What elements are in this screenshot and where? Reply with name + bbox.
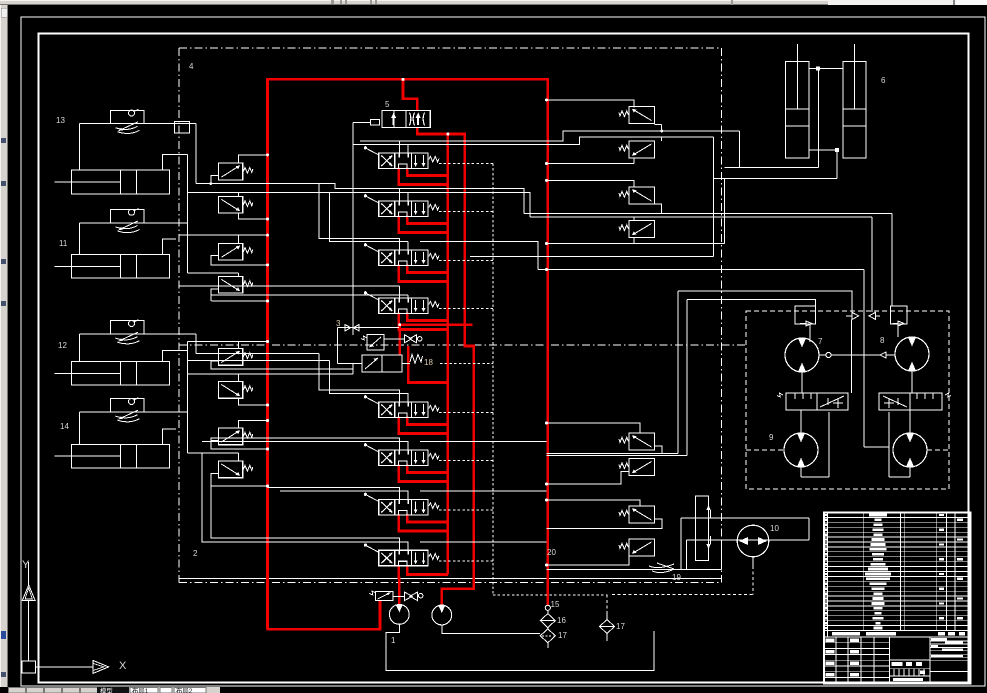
comp6 wire upper	[740, 131, 787, 167]
10 drain	[752, 557, 754, 566]
svg-text:11: 11	[59, 239, 68, 248]
motor lower right	[893, 433, 927, 467]
row7 right	[420, 490, 547, 492]
pilot valve right column 8	[619, 539, 655, 556]
pilot dashed	[439, 260, 493, 262]
bus A to row2/right	[196, 184, 524, 214]
svg-text:7: 7	[818, 337, 823, 346]
rod 12	[55, 372, 72, 374]
row5 stub A	[319, 354, 399, 402]
pv15 pilot line	[547, 500, 641, 506]
svg-text:9: 9	[769, 433, 774, 442]
line cyl13 head	[80, 123, 196, 125]
pv12 out	[633, 238, 635, 244]
pv8 pilot line	[238, 453, 240, 461]
red feed to valve 5	[403, 79, 417, 111]
link bus across red	[470, 255, 713, 257]
svg-text:18: 18	[424, 358, 433, 367]
directional valve row 8	[364, 544, 439, 566]
red tap B	[406, 514, 409, 522]
pilot valve left column 2	[218, 196, 252, 213]
line cyl11 head	[80, 222, 188, 224]
pv4 out	[211, 289, 219, 301]
right bus 3	[538, 269, 864, 271]
bus F	[196, 353, 319, 355]
directional valve row 7	[364, 493, 439, 515]
wire 3 down to valve 18	[337, 328, 339, 364]
pv10 out	[629, 157, 634, 159]
bus row1 to comp6 side	[408, 137, 713, 145]
pilot valve right column 6	[619, 459, 655, 476]
svg-text:2: 2	[193, 549, 198, 558]
dashed to motor 9	[746, 449, 784, 451]
pv13 pilot line	[547, 423, 641, 433]
svg-text:16: 16	[557, 616, 566, 625]
solid line above dashed bottom	[179, 578, 722, 580]
red long riser lower	[464, 346, 474, 590]
wire 3 to red header	[338, 327, 400, 329]
pilot valve left column 5	[218, 349, 252, 366]
directional valve row 4	[364, 291, 439, 313]
pilot valve left column 3	[218, 243, 252, 260]
right bus 4	[678, 291, 852, 312]
cyl13 port2	[162, 155, 187, 171]
red tap B	[406, 417, 409, 425]
pv2 pilot line	[238, 192, 240, 196]
bus E	[212, 300, 268, 302]
pv10 top link	[661, 137, 663, 141]
branch to row3b	[330, 192, 409, 241]
row2 stub A	[398, 188, 400, 201]
left toolbar strip	[0, 5, 8, 687]
pv1 out	[211, 176, 219, 184]
svg-text:Y: Y	[22, 559, 30, 571]
pv5 pilot line	[239, 342, 268, 349]
svg-text:4: 4	[189, 62, 194, 71]
red right riser	[546, 78, 549, 606]
node circles and crosslink	[826, 352, 831, 357]
svg-text:20: 20	[547, 548, 556, 557]
red tap B	[406, 313, 409, 321]
valve block near 10	[696, 496, 709, 561]
red tap B	[406, 265, 409, 273]
dashed motor enclosure	[746, 311, 949, 489]
parts list table	[824, 513, 971, 684]
cyl12 port2	[162, 351, 187, 362]
svg-text:14: 14	[60, 422, 69, 431]
row8 right	[420, 541, 547, 543]
right bus 3 drop	[863, 270, 865, 448]
bus row1 to comp6 upper	[399, 131, 739, 141]
svg-text:3: 3	[336, 319, 341, 328]
red tap A	[398, 168, 401, 185]
cylinder pair 6	[786, 61, 810, 158]
pv16 out	[547, 556, 630, 565]
return line	[547, 569, 722, 571]
pilot valve left column 7	[218, 428, 252, 445]
bus G	[187, 373, 353, 375]
pv3 pilot line	[238, 235, 240, 243]
pilot valve right column 1	[619, 107, 655, 124]
row1 stub A	[360, 141, 399, 153]
row6 stub A	[211, 438, 399, 450]
svg-text:17: 17	[558, 631, 567, 640]
pilot dashed	[439, 308, 493, 310]
svg-text:1: 1	[391, 636, 396, 645]
red to relief valve	[379, 600, 382, 631]
dashed from motor	[927, 449, 949, 451]
svg-text:17: 17	[616, 622, 625, 631]
red mid header	[398, 323, 472, 326]
red tap B	[406, 168, 409, 176]
double bus upper	[547, 453, 679, 455]
row8 stub A	[211, 486, 399, 550]
bus B to row2/right	[187, 192, 530, 216]
pv8 out	[211, 473, 268, 486]
check valve at pump outlet	[405, 592, 413, 601]
pump 2	[432, 605, 452, 625]
cylinder 14	[55, 444, 170, 468]
pilot dashed	[439, 211, 493, 213]
svg-text:8: 8	[880, 336, 885, 345]
row4 stub B	[211, 294, 408, 296]
svg-text:19: 19	[672, 573, 681, 582]
pump2 suction	[442, 625, 540, 634]
comp6 wire lower	[724, 178, 786, 243]
pv2 out	[239, 213, 268, 219]
row6 right	[420, 441, 547, 443]
red bottom run	[266, 628, 380, 631]
rod 11	[55, 265, 72, 267]
row7 stub B	[280, 491, 408, 500]
cylinder 13	[55, 170, 170, 194]
svg-text:布局1: 布局1	[132, 686, 149, 693]
solenoid valve right (motor circuit)	[879, 393, 942, 410]
pv6 out	[239, 398, 268, 405]
top toolbar strip	[0, 0, 987, 5]
pv11 out	[655, 204, 662, 213]
red tap B	[406, 216, 409, 224]
solenoid valve left (motor circuit)	[786, 393, 848, 410]
line cyl14 head	[80, 411, 188, 413]
pv9 out	[655, 123, 662, 125]
svg-text:布局2: 布局2	[176, 686, 193, 693]
right bus 1	[524, 212, 892, 214]
pv13 out	[655, 446, 662, 454]
pilot valve left column 6	[218, 382, 252, 399]
red tap A	[398, 216, 401, 233]
directional valve row 1	[364, 146, 439, 168]
row2 stub B	[407, 192, 409, 201]
layout tab bar	[8, 687, 220, 693]
wire to 10 lower	[687, 539, 810, 541]
row7 stub A	[268, 488, 400, 500]
small orifice box on dashed line	[175, 122, 190, 134]
tank 19	[649, 564, 674, 568]
pilot valve right column 7	[619, 506, 655, 523]
pv12 top link	[633, 217, 635, 221]
pilot valve right column 3	[619, 187, 655, 204]
svg-text:模型: 模型	[100, 686, 113, 693]
row4 stub A	[180, 285, 400, 287]
branch to row3	[319, 184, 399, 250]
dashed mid line of box 4	[179, 344, 746, 346]
directional valve row 3	[364, 243, 439, 265]
red tap A	[398, 465, 401, 482]
node 15	[545, 605, 550, 610]
pv11 pilot line	[547, 180, 635, 187]
pilot valve right column 5	[619, 433, 655, 450]
bus C	[180, 234, 268, 236]
double bus lower	[547, 455, 688, 457]
wire to 10 upper	[681, 517, 809, 519]
pilot valve right column 4	[619, 221, 655, 238]
directional valve row 6	[364, 443, 439, 465]
pv14 out	[547, 472, 630, 485]
dashed drain line	[612, 594, 753, 596]
motor 9	[784, 433, 818, 467]
row1 stub B	[353, 145, 408, 154]
dashed enclosure box 4	[179, 47, 722, 49]
svg-text:6: 6	[881, 76, 886, 85]
rod 13	[55, 181, 72, 183]
red tap A	[398, 417, 401, 434]
pilot dashed	[439, 412, 493, 414]
red long riser upper	[463, 133, 466, 346]
cylinder 11	[55, 255, 170, 279]
pv1 pilot line	[239, 155, 268, 163]
pilot valve left column 1	[218, 163, 252, 180]
relief valve 3 body	[367, 335, 384, 351]
svg-text:5: 5	[385, 100, 390, 109]
pilot dashed	[439, 163, 493, 165]
red pump 1 riser	[398, 577, 401, 606]
pv4 pilot line	[238, 273, 240, 276]
pump 1	[389, 605, 409, 625]
row8 stub B	[202, 453, 408, 550]
pv5 out	[211, 361, 353, 369]
pilot dashed	[439, 460, 493, 462]
motor internal wires	[809, 324, 811, 342]
pilot dashed	[439, 560, 493, 562]
rod 14	[55, 455, 72, 457]
pilot valve left column 4	[218, 276, 252, 293]
pv7 pilot line	[239, 421, 268, 429]
bus D	[187, 272, 238, 274]
motor 7	[785, 338, 819, 372]
shuttle checks	[852, 312, 858, 319]
red to pump 2	[442, 589, 474, 606]
bus G2	[187, 360, 329, 362]
red pump1 riser joins row8 port	[398, 565, 401, 579]
pv9 pilot line	[547, 100, 635, 108]
pv7 out	[211, 440, 268, 449]
pilot valve left column 8	[218, 461, 252, 478]
pv3 out	[211, 256, 268, 265]
UCS icon	[22, 661, 35, 673]
right bus 2	[530, 216, 872, 218]
pilot dashed	[439, 509, 493, 511]
right bus 1 drop	[891, 213, 893, 306]
red top header	[268, 78, 548, 81]
svg-text:10: 10	[770, 524, 779, 533]
inner dashed boundary	[492, 164, 494, 596]
right bus 5	[687, 299, 816, 306]
pilot valve right column 2	[619, 141, 655, 158]
red tap A	[398, 265, 401, 282]
svg-text:12: 12	[58, 341, 67, 350]
long line valve5 to relief 3	[352, 122, 354, 334]
motor 8	[895, 337, 929, 371]
red tap A	[398, 514, 401, 531]
pv6 pilot line	[238, 374, 240, 382]
row3 to right bus	[420, 242, 538, 270]
red below valve 5	[417, 127, 464, 134]
comp6 lower to red	[547, 243, 725, 245]
cyl11 port2	[162, 239, 176, 255]
red tap B	[406, 465, 409, 473]
red left riser	[266, 78, 269, 629]
line cyl12 head	[80, 333, 196, 335]
small supply boxes	[795, 306, 816, 324]
directional valve row 5	[364, 395, 439, 417]
small check pair near 3	[345, 325, 351, 331]
row6 stub B	[202, 442, 408, 451]
red tap A	[398, 313, 401, 330]
svg-text:15: 15	[551, 600, 560, 609]
relief valve near pump 1	[376, 591, 393, 600]
links to lower motors	[800, 410, 802, 433]
red tap row8	[406, 565, 409, 575]
suction / tank line	[386, 624, 654, 670]
directional valve row 2	[364, 194, 439, 216]
pv15 out	[547, 519, 662, 528]
motor 10	[737, 525, 769, 557]
svg-text:X: X	[119, 660, 127, 672]
red weave riser	[447, 134, 450, 575]
row5 stub B	[330, 361, 409, 403]
red to valve 18	[398, 324, 401, 356]
cylinder 12	[55, 362, 170, 386]
valve 18	[362, 355, 402, 372]
valve18 port link	[352, 364, 354, 374]
right bus 2 drop	[871, 217, 873, 312]
filter 17 right	[600, 620, 615, 634]
svg-text:13: 13	[56, 116, 65, 125]
red mid weave	[408, 346, 448, 383]
cyl14 port2	[162, 429, 176, 444]
junction nodes on red risers	[266, 153, 269, 156]
